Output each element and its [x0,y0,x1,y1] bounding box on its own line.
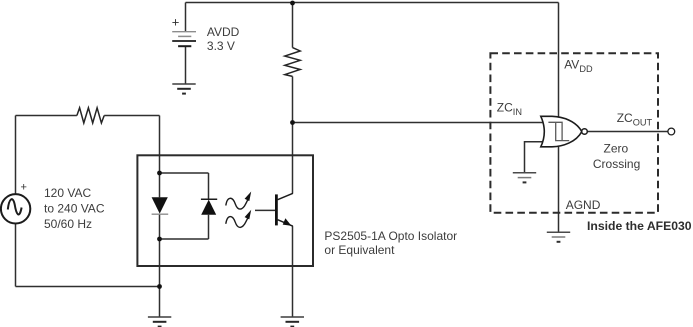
svg-text:Inside the AFE030: Inside the AFE030 [587,219,692,233]
svg-text:PS2505-1A Opto Isolator: PS2505-1A Opto Isolator [324,229,457,243]
svg-text:ZCOUT: ZCOUT [617,111,653,128]
svg-text:AVDD: AVDD [207,25,240,39]
svg-text:AGND: AGND [566,198,601,212]
svg-text:or Equivalent: or Equivalent [324,243,395,257]
svg-text:Crossing: Crossing [593,157,640,171]
svg-text:to 240 VAC: to 240 VAC [44,202,105,216]
svg-text:3.3 V: 3.3 V [207,39,235,53]
svg-text:120 VAC: 120 VAC [44,186,91,200]
svg-text:+: + [21,182,27,194]
svg-text:Zero: Zero [604,142,629,156]
svg-text:AVDD: AVDD [564,57,593,74]
svg-text:+: + [172,15,180,30]
svg-text:ZCIN: ZCIN [497,101,522,118]
svg-text:50/60 Hz: 50/60 Hz [44,217,92,231]
